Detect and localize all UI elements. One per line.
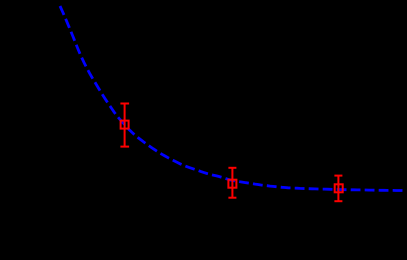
data point 1 error bar xyxy=(120,104,129,147)
fitted decay curve (blue dashed) xyxy=(60,6,405,191)
data point 3 marker (open square) xyxy=(335,184,343,192)
data point 1 marker (open square) xyxy=(121,121,129,129)
data point 2 error bar xyxy=(228,168,236,198)
data point 3 error bar xyxy=(334,176,342,202)
data point 2 marker (open square) xyxy=(228,180,236,188)
